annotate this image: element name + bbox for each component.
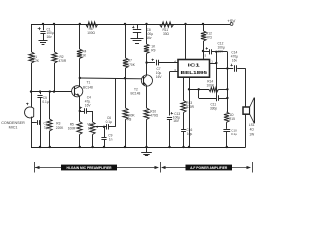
svg-text:HI-GAIN MIC PREAMPLIFIER: HI-GAIN MIC PREAMPLIFIER xyxy=(66,166,112,170)
svg-text:16v: 16v xyxy=(146,36,152,40)
svg-text:220K: 220K xyxy=(56,126,64,130)
svg-text:R7: R7 xyxy=(128,59,132,63)
svg-text:100Ω: 100Ω xyxy=(87,31,95,35)
svg-text:100R: 100R xyxy=(68,126,76,130)
svg-text:470R: 470R xyxy=(59,59,67,63)
svg-text:0.1µ: 0.1µ xyxy=(42,100,48,104)
svg-text:T1: T1 xyxy=(87,81,91,85)
svg-text:0.1µ: 0.1µ xyxy=(106,120,112,124)
svg-text:33Ω: 33Ω xyxy=(163,32,170,36)
svg-text:MIC1: MIC1 xyxy=(9,126,18,130)
svg-text:R9: R9 xyxy=(151,49,155,53)
svg-text:16v: 16v xyxy=(47,35,53,39)
svg-text:LS1: LS1 xyxy=(249,123,255,127)
svg-text:470R: 470R xyxy=(186,105,194,109)
svg-text:BEL1895: BEL1895 xyxy=(181,70,208,75)
svg-text:16V: 16V xyxy=(85,103,92,107)
svg-text:R15: R15 xyxy=(229,117,235,121)
svg-text:10K: 10K xyxy=(88,126,95,130)
svg-text:47Ω: 47Ω xyxy=(206,36,213,40)
svg-text:470K: 470K xyxy=(127,63,135,67)
svg-text:1W: 1W xyxy=(249,132,254,136)
svg-text:16V: 16V xyxy=(218,49,225,53)
svg-text:4Ω: 4Ω xyxy=(250,128,255,132)
svg-text:R3: R3 xyxy=(56,122,60,126)
svg-text:0.1µ: 0.1µ xyxy=(231,132,237,136)
svg-text:A.F POWER AMPLIFIER: A.F POWER AMPLIFIER xyxy=(190,166,228,170)
svg-text:16V: 16V xyxy=(173,119,180,123)
svg-text:R8: R8 xyxy=(127,117,131,121)
svg-text:470Ω: 470Ω xyxy=(150,114,158,118)
svg-text:+9V: +9V xyxy=(227,18,235,23)
svg-text:1n: 1n xyxy=(109,137,113,141)
svg-text:1µ: 1µ xyxy=(44,125,48,129)
svg-text:IC1: IC1 xyxy=(188,63,201,68)
svg-text:16v: 16v xyxy=(232,58,238,62)
svg-text:BC148: BC148 xyxy=(83,86,93,90)
svg-text:CONDENSER: CONDENSER xyxy=(1,121,25,125)
svg-text:16V: 16V xyxy=(156,75,163,79)
svg-text:100K: 100K xyxy=(207,84,215,88)
svg-text:330p: 330p xyxy=(210,106,217,110)
svg-text:BC148: BC148 xyxy=(131,92,141,96)
svg-text:2.2K: 2.2K xyxy=(33,59,40,63)
